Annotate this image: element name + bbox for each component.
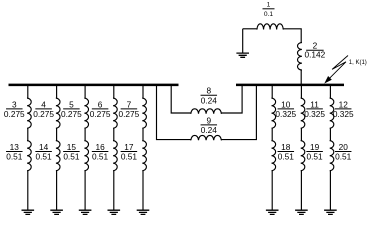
wire (feeder branch at x=85.1) <box>84 85 86 98</box>
wire <box>221 85 242 113</box>
wire <box>27 128 29 141</box>
inductor L9 (9/0.24) <box>191 135 222 140</box>
svg-text:0.51: 0.51 <box>121 152 138 162</box>
ground (system source) <box>242 29 244 53</box>
svg-text:14: 14 <box>39 142 49 152</box>
svg-text:0.51: 0.51 <box>63 152 80 162</box>
inductor L8 (8/0.24) <box>191 109 222 114</box>
svg-text:18: 18 <box>281 142 291 152</box>
wire <box>329 128 331 141</box>
inductor L6 <box>113 98 117 128</box>
node: left busbar <box>9 84 179 87</box>
svg-text:4: 4 <box>41 99 46 109</box>
label 11/0.325 <box>306 108 323 110</box>
wire <box>113 171 115 211</box>
label 5/0.275 <box>63 108 80 110</box>
svg-text:0.325: 0.325 <box>304 109 325 119</box>
ground <box>324 210 337 214</box>
wire (feeder branch at x=272.2) <box>271 85 273 98</box>
wire (feeder branch at x=143.0) <box>142 85 144 98</box>
label 3/0.275 <box>6 108 23 110</box>
svg-text:11: 11 <box>310 99 319 109</box>
svg-text:0.325: 0.325 <box>333 109 354 119</box>
wire <box>271 171 273 211</box>
inductor L5 <box>84 98 88 128</box>
wire <box>329 171 331 211</box>
svg-text:20: 20 <box>339 142 349 152</box>
ground <box>22 210 35 214</box>
wire <box>283 29 301 43</box>
label 2/0.142 <box>306 49 324 51</box>
inductor L11 <box>301 98 305 128</box>
wire <box>113 128 115 141</box>
ground <box>137 210 150 214</box>
label 6/0.275 <box>92 108 109 110</box>
label 10/0.325 <box>278 108 295 110</box>
svg-text:5: 5 <box>69 99 74 109</box>
svg-text:0.275: 0.275 <box>119 109 140 119</box>
inductor L10 <box>272 98 276 128</box>
svg-text:10: 10 <box>281 99 291 109</box>
inductor L20 <box>330 141 334 171</box>
wire (feeder branch at x=301.4) <box>300 85 302 98</box>
svg-text:0.51: 0.51 <box>278 152 295 162</box>
svg-text:0.325: 0.325 <box>275 109 296 119</box>
ground <box>108 210 121 214</box>
svg-text:9: 9 <box>206 115 211 125</box>
svg-text:12: 12 <box>339 99 349 109</box>
inductor L16 <box>113 141 117 171</box>
inductor L17 <box>142 141 146 171</box>
svg-text:17: 17 <box>124 142 134 152</box>
wire <box>300 171 302 211</box>
svg-text:7: 7 <box>127 99 132 109</box>
inductor L15 <box>84 141 88 171</box>
label 1/0.1 <box>263 8 275 10</box>
label 15/0.51 <box>63 151 80 153</box>
label 4/0.275 <box>35 108 52 110</box>
svg-text:6: 6 <box>98 99 103 109</box>
wire <box>300 70 302 85</box>
svg-text:0.24: 0.24 <box>201 95 218 105</box>
inductor L3 <box>27 98 31 128</box>
wire (feeder branch at x=113.8) <box>113 85 115 98</box>
wire <box>56 128 58 141</box>
wire <box>84 171 86 211</box>
label 18/0.51 <box>278 151 295 153</box>
wire <box>142 171 144 211</box>
wire (tie line via reactor 8) <box>171 85 191 113</box>
svg-text:0.24: 0.24 <box>201 125 218 135</box>
wire (feeder branch at x=27.8) <box>27 85 29 98</box>
wire <box>56 171 58 211</box>
label 16/0.51 <box>92 151 109 153</box>
wire <box>84 128 86 141</box>
svg-text:0.51: 0.51 <box>36 152 53 162</box>
inductor L18 <box>272 141 276 171</box>
wire (feeder branch at x=330.4) <box>329 85 331 98</box>
ground <box>266 210 279 214</box>
label 9/0.24 <box>201 124 218 126</box>
label 17/0.51 <box>121 151 137 153</box>
label 12/0.325 <box>335 108 352 110</box>
wire <box>221 85 256 140</box>
inductor L12 <box>330 98 334 128</box>
label 20/0.51 <box>335 151 352 153</box>
inductor L13 <box>27 141 31 171</box>
svg-text:0.142: 0.142 <box>305 50 326 60</box>
label 19/0.51 <box>306 151 323 153</box>
ground <box>50 210 63 214</box>
svg-text:0.51: 0.51 <box>92 152 109 162</box>
wire <box>271 128 273 141</box>
svg-text:0.1: 0.1 <box>264 11 273 18</box>
svg-text:0.275: 0.275 <box>4 109 25 119</box>
svg-text:13: 13 <box>10 142 20 152</box>
ground <box>79 210 92 214</box>
inductor L4 <box>56 98 60 128</box>
svg-text:0.275: 0.275 <box>33 109 54 119</box>
svg-text:0.51: 0.51 <box>6 152 23 162</box>
wire <box>300 128 302 141</box>
svg-text:19: 19 <box>310 142 320 152</box>
svg-text:8: 8 <box>206 86 211 96</box>
svg-text:0.51: 0.51 <box>335 152 352 162</box>
ground <box>295 210 308 214</box>
wire <box>27 171 29 211</box>
inductor L1 (system reactance 1/0.1) <box>257 24 284 30</box>
label 7/0.275 <box>121 108 137 110</box>
label 8/0.24 <box>201 94 218 96</box>
svg-text:0.275: 0.275 <box>61 109 82 119</box>
wire <box>142 128 144 141</box>
node: right busbar <box>236 84 344 87</box>
wire <box>243 28 257 30</box>
inductor L19 <box>301 141 305 171</box>
svg-text:16: 16 <box>95 142 105 152</box>
wire (tie line via reactor 9) <box>157 85 191 140</box>
svg-text:0.275: 0.275 <box>90 109 111 119</box>
label 13/0.51 <box>6 151 23 153</box>
inductor L2 (2/0.142) <box>298 42 302 70</box>
inductor L7 <box>142 98 146 128</box>
svg-text:15: 15 <box>67 142 77 152</box>
wire (feeder branch at x=56.6) <box>56 85 58 98</box>
fault arrow K(1) <box>324 56 348 84</box>
svg-text:1: 1 <box>267 2 271 9</box>
svg-text:1, K(1): 1, K(1) <box>349 60 367 66</box>
label 14/0.51 <box>35 151 52 153</box>
inductor L14 <box>56 141 60 171</box>
svg-text:3: 3 <box>12 99 17 109</box>
svg-text:0.51: 0.51 <box>307 152 324 162</box>
